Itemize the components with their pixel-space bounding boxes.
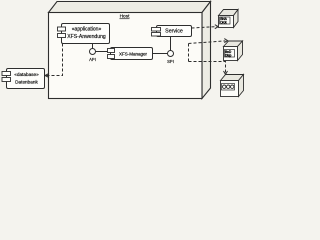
branch to device 2 — [189, 41, 226, 44]
svg-text:API: API — [89, 57, 96, 62]
device node 1 (3D box) — [219, 10, 239, 28]
arrowhead at device 3 — [224, 71, 228, 74]
device node 2 (3D box) — [224, 41, 243, 61]
svg-text:Drck: Drck — [220, 21, 227, 25]
svg-text:XFS-Anwendung: XFS-Anwendung — [67, 34, 106, 40]
svg-text:Service: Service — [165, 29, 183, 35]
component Datenbank — [2, 69, 45, 89]
component Service — [152, 26, 192, 37]
branch to device 3 — [189, 62, 226, 73]
arrowhead at Datenbank — [45, 74, 49, 78]
node Host (3D cube) — [49, 2, 211, 99]
svg-text:Datenbank: Datenbank — [15, 79, 38, 84]
dashed arrow Service -> device 1 — [192, 27, 218, 28]
svg-text:XFS-Manager: XFS-Manager — [119, 52, 148, 57]
arrowhead at device 2 — [224, 39, 227, 43]
interface API (lollipop) — [90, 44, 108, 55]
svg-text:«database»: «database» — [14, 72, 39, 77]
component XFS-Anwendung — [58, 24, 110, 44]
svg-text:Disp: Disp — [225, 54, 231, 58]
svg-text:SPI: SPI — [167, 59, 174, 64]
svg-text:«application»: «application» — [72, 27, 102, 33]
svg-text:Host: Host — [120, 14, 131, 20]
device node 3 (3D box) — [221, 75, 244, 97]
dashed line Service area down — [189, 41, 226, 73]
component XFS-Manager — [108, 48, 153, 60]
interface SPI (lollipop) — [153, 37, 174, 57]
dashed dependency XFS-Anwendung -> Datenbank — [46, 44, 63, 76]
